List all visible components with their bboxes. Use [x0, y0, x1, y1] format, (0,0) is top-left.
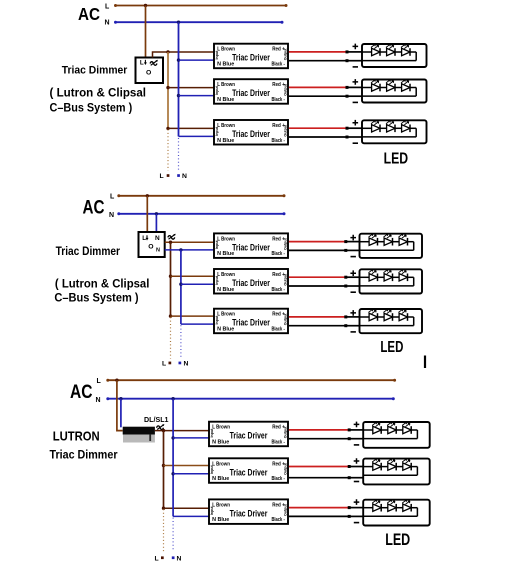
wire AC neutral N s2	[119, 213, 284, 215]
node L junction s2	[146, 194, 149, 197]
wire red + output of U4	[289, 241, 346, 243]
svg-text:Triac Dimmer: Triac Dimmer	[62, 65, 128, 77]
lutron dimmer slider mark	[149, 434, 151, 441]
wire dotted neutral continuation s2	[180, 325, 182, 358]
node - terminal row 6	[344, 324, 347, 327]
LED series string 6	[360, 309, 414, 326]
node dimmed live bus junction s1	[166, 50, 169, 53]
svg-text:L: L	[160, 173, 164, 180]
node neutral to driver1 s1	[177, 58, 180, 61]
svg-text:N: N	[156, 248, 160, 254]
wire dotted live continuation s2	[170, 317, 172, 358]
svg-text:N: N	[105, 20, 110, 27]
wire black - output of U3	[289, 136, 347, 138]
LED panel box 1	[362, 44, 427, 67]
wire dimmed live output s1	[153, 52, 215, 58]
wire black - output of U9	[289, 515, 349, 517]
svg-text:LUTRON: LUTRON	[53, 428, 100, 443]
wire - lead from LED panel 5	[346, 285, 360, 287]
triac dimmer box s1	[136, 58, 164, 84]
LED panel box 4	[360, 234, 423, 258]
wire L drop to dimmer s2	[146, 196, 148, 232]
wire black - output of U5	[289, 285, 346, 287]
LED series string 9	[363, 500, 417, 516]
wire neutral stub driver2 s2	[181, 283, 214, 285]
wire L drop to dimmer s3	[117, 380, 123, 430]
svg-text:AC: AC	[70, 382, 93, 403]
node - terminal row 2	[346, 95, 349, 98]
wire red + output of U9	[289, 507, 349, 509]
wire AC live L s3	[108, 379, 395, 381]
LED series string 2	[362, 80, 416, 97]
node neutral driver1 s3	[171, 436, 174, 439]
svg-text:( Lutron & Clipsal: ( Lutron & Clipsal	[50, 86, 147, 100]
wire red + output of U6	[289, 316, 346, 318]
wire neutral stub driver1 s1	[179, 59, 215, 61]
wire black - output of U4	[289, 249, 346, 251]
svg-text:O: O	[146, 69, 151, 76]
node - terminal row 9	[348, 515, 351, 518]
wire + lead into LED panel 1	[347, 51, 362, 53]
wire live stub to driver2 s1	[168, 87, 214, 89]
svg-text:L: L	[142, 235, 146, 242]
wire neutral stub driver2 s1	[179, 95, 215, 97]
node + terminal row 7	[348, 428, 351, 431]
LED panel box 8	[363, 459, 430, 485]
node L dot bottom s1	[167, 174, 170, 177]
wire - lead from LED panel 3	[347, 136, 362, 138]
label - row 6	[351, 331, 356, 333]
wire live stub driver3 s3	[164, 507, 210, 509]
wire - lead from LED panel 4	[346, 249, 360, 251]
triac dimmer box s2	[139, 232, 165, 257]
node L junction s3	[115, 379, 118, 382]
node + terminal row 8	[348, 465, 351, 468]
node bus driver3 s2	[169, 314, 172, 317]
wire red + output of U3	[289, 127, 347, 129]
node + terminal row 3	[346, 127, 349, 130]
wire live stub driver2 s3	[164, 465, 210, 467]
wire red + output of U8	[289, 466, 349, 468]
dimmer phase-cut symbol s1	[150, 60, 158, 65]
wire + lead into LED panel 8	[349, 466, 363, 468]
svg-text:N: N	[155, 235, 160, 242]
stray cursor bar	[424, 356, 426, 369]
LED panel box 2	[362, 80, 427, 103]
node live bus junction s2	[169, 241, 172, 244]
svg-text:Triac Dimmer: Triac Dimmer	[50, 447, 118, 461]
svg-text:L: L	[97, 378, 102, 385]
wire neutral bus s3	[172, 399, 174, 517]
wire - lead from LED panel 2	[347, 95, 362, 97]
wire - lead from LED panel 8	[349, 477, 363, 479]
wire black - output of U2	[289, 95, 347, 97]
node L to dimmer junction s1	[144, 4, 147, 7]
wire + lead into LED panel 7	[349, 429, 363, 431]
svg-text:N: N	[182, 173, 187, 180]
svg-text:N: N	[184, 361, 189, 368]
label - row 4	[351, 256, 356, 258]
LED series string 8	[363, 459, 417, 476]
node bus to driver2 junction s1	[166, 86, 169, 89]
wire + lead into LED panel 5	[346, 276, 360, 278]
LED panel box 5	[360, 269, 423, 293]
wire L drop to dimmer s1	[145, 6, 147, 58]
node N dot bottom s1	[177, 174, 180, 177]
LED panel box 3	[362, 120, 427, 143]
node neutral bus junction top s1	[177, 21, 180, 24]
label - row 7	[354, 444, 359, 446]
node - terminal row 8	[348, 476, 351, 479]
wire red + output of U5	[289, 276, 346, 278]
wire red + output of U1	[289, 51, 347, 53]
svg-text:L: L	[140, 59, 144, 66]
wire + lead into LED panel 2	[347, 86, 362, 88]
svg-text:C–Bus System ): C–Bus System )	[50, 101, 133, 115]
node bus driver3 s3	[162, 507, 165, 510]
LED series string 1	[362, 44, 416, 61]
triac driver U4	[214, 233, 288, 258]
svg-text:L: L	[155, 555, 159, 562]
LED panel box 6	[360, 309, 423, 333]
triac driver U6	[214, 309, 288, 334]
wire neutral bus s1	[178, 22, 180, 136]
wire live stub driver2 s2	[171, 275, 215, 277]
node - terminal row 7	[348, 437, 351, 440]
node neutral to driver2 s1	[177, 94, 180, 97]
wire live stub to driver3 s1	[168, 127, 214, 129]
wire dimmed live bus s1	[167, 52, 169, 128]
node live bus junction s3	[162, 429, 165, 432]
label - row 1	[353, 66, 358, 68]
node - terminal row 5	[344, 285, 347, 288]
svg-text:AC: AC	[78, 4, 100, 24]
label - row 5	[351, 291, 356, 293]
wire neutral bus s2	[180, 250, 182, 324]
wire dimmed live out s3	[155, 430, 209, 432]
wire N drop to dimmer s2	[155, 214, 157, 232]
wire AC neutral N s3	[108, 398, 394, 400]
wire live bus s2	[170, 242, 172, 316]
node neutral bus junction s3	[171, 397, 174, 400]
node L dot bottom s3	[161, 556, 164, 559]
svg-text:LED: LED	[384, 151, 409, 168]
svg-text:( Lutron & Clipsal: ( Lutron & Clipsal	[55, 277, 149, 291]
lutron dimmer base (grey)	[123, 435, 155, 443]
label - row 2	[353, 101, 358, 103]
wire neutral out s2	[165, 249, 214, 251]
svg-text:Triac Dimmer: Triac Dimmer	[56, 244, 121, 258]
node N dot bottom s2	[179, 362, 182, 365]
label + row 8	[354, 458, 360, 464]
node bus driver2 s3	[162, 464, 165, 467]
label - row 8	[354, 481, 359, 483]
svg-text:O: O	[148, 243, 153, 250]
wire black - output of U7	[289, 438, 349, 440]
node + terminal row 5	[344, 276, 347, 279]
wire black - output of U1	[289, 60, 347, 62]
lutron dimmer body (black)	[123, 427, 155, 435]
label + row 7	[354, 422, 360, 428]
node N dot bottom s3	[172, 556, 175, 559]
LED series string 7	[363, 422, 417, 439]
wire red + output of U7	[289, 429, 349, 431]
wire live bus s3	[163, 431, 165, 509]
wire - lead from LED panel 9	[349, 515, 363, 517]
node + terminal row 2	[346, 86, 349, 89]
triac driver U5	[214, 269, 288, 294]
wire + lead into LED panel 4	[346, 241, 360, 243]
triac driver U9	[209, 499, 288, 524]
node neutral driver2 s3	[171, 472, 174, 475]
svg-text:LED: LED	[385, 531, 410, 549]
LED series string 5	[360, 269, 414, 286]
node - terminal row 4	[344, 249, 347, 252]
svg-text:DL/SL1: DL/SL1	[144, 415, 169, 424]
svg-text:L: L	[110, 194, 115, 201]
label + row 5	[350, 270, 356, 276]
label - row 3	[353, 142, 358, 144]
wire AC live L s2	[119, 195, 284, 197]
label + row 6	[350, 310, 356, 316]
wire N drop to dimmer s3	[120, 399, 122, 428]
label - row 9	[354, 522, 359, 524]
svg-text:LED: LED	[380, 339, 403, 356]
node bus to driver3 junction s1	[166, 127, 169, 130]
node + terminal row 4	[344, 240, 347, 243]
node - terminal row 1	[346, 59, 349, 62]
LED panel box 7	[363, 422, 430, 448]
label + row 1	[353, 44, 359, 50]
wire neutral stub driver3 s2	[181, 323, 214, 325]
node bus driver2 s2	[169, 275, 172, 278]
wire dotted neutral continuation s3	[172, 518, 174, 552]
LED series string 4	[360, 234, 414, 251]
svg-text:N: N	[96, 397, 101, 404]
svg-text:L: L	[105, 3, 110, 10]
LED series string 3	[362, 120, 416, 137]
LED panel box 9	[363, 500, 430, 526]
wire - lead from LED panel 7	[349, 438, 363, 440]
node - terminal row 3	[346, 136, 349, 139]
triac driver U3	[214, 120, 288, 145]
wire + lead into LED panel 9	[349, 507, 363, 509]
svg-text:C–Bus System ): C–Bus System )	[54, 291, 138, 305]
wire - lead from LED panel 6	[346, 325, 360, 327]
wire + lead into LED panel 6	[346, 316, 360, 318]
node neutral bus junction s2	[179, 248, 182, 251]
wire neutral stub driver2 s3	[173, 473, 209, 475]
wire neutral stub driver1 s3	[173, 437, 209, 439]
node N junction s2	[155, 212, 158, 215]
wire AC live L s1	[116, 5, 287, 7]
label + row 9	[354, 499, 360, 505]
node + terminal row 6	[344, 315, 347, 318]
triac driver U2	[214, 79, 288, 104]
label + row 4	[350, 235, 356, 241]
svg-text:L: L	[162, 361, 166, 368]
wire dimmed live out s2	[165, 241, 214, 243]
triac driver U8	[209, 458, 288, 483]
svg-text:N: N	[177, 555, 182, 562]
svg-text:N: N	[109, 212, 114, 219]
node L dot bottom s2	[169, 362, 172, 365]
node + terminal row 1	[346, 50, 349, 53]
node N junction s3	[119, 397, 122, 400]
label + row 2	[353, 79, 359, 85]
triac driver U7	[209, 422, 288, 447]
wire red + output of U2	[289, 86, 347, 88]
wire dotted live continuation s1	[167, 130, 169, 171]
wire black - output of U6	[289, 325, 346, 327]
wire neutral stub driver3 s3	[173, 515, 209, 517]
dimmer phase-cut symbol s2	[168, 234, 176, 240]
label + row 3	[353, 120, 359, 126]
wire black - output of U8	[289, 477, 349, 479]
wire neutral stub driver3 s1	[179, 135, 215, 137]
wire dotted live continuation s3	[163, 509, 165, 551]
svg-text:AC: AC	[83, 198, 105, 219]
node neutral driver2 s2	[179, 283, 182, 286]
wire AC neutral N s1	[116, 21, 283, 23]
dimmer phase-cut symbol s3	[157, 424, 165, 430]
triac driver U1	[214, 44, 288, 68]
wire - lead from LED panel 1	[347, 60, 362, 62]
wire + lead into LED panel 3	[347, 127, 362, 129]
wire dotted neutral continuation s1	[178, 138, 180, 171]
node + terminal row 9	[348, 506, 351, 509]
wire live stub driver3 s2	[171, 315, 215, 317]
